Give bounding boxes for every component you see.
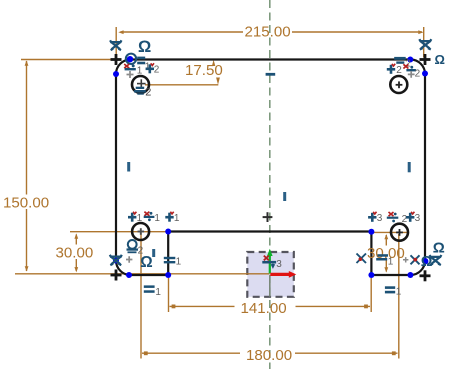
- svg-text:180.00: 180.00: [246, 347, 292, 364]
- svg-text:150.00: 150.00: [3, 194, 49, 211]
- svg-text:30.00: 30.00: [56, 245, 94, 262]
- svg-text:2: 2: [138, 246, 144, 257]
- svg-text:1: 1: [154, 213, 160, 224]
- svg-text:2: 2: [415, 68, 421, 79]
- svg-text:215.00: 215.00: [245, 24, 291, 41]
- svg-text:3: 3: [276, 259, 282, 270]
- svg-text:1: 1: [176, 257, 182, 268]
- svg-text:Ω: Ω: [421, 254, 433, 270]
- svg-text:141.00: 141.00: [241, 300, 287, 317]
- svg-text:2: 2: [145, 86, 151, 98]
- svg-text:1: 1: [137, 213, 143, 224]
- svg-text:Ω: Ω: [138, 38, 151, 56]
- svg-text:3: 3: [415, 213, 421, 224]
- svg-text:1: 1: [388, 257, 394, 268]
- svg-text:1: 1: [155, 287, 161, 298]
- svg-text:2: 2: [402, 214, 408, 225]
- svg-text:1: 1: [174, 213, 180, 224]
- svg-text:Ω: Ω: [433, 239, 445, 256]
- svg-text:1: 1: [137, 65, 143, 76]
- svg-text:17.50: 17.50: [185, 62, 223, 79]
- svg-text:2: 2: [154, 65, 160, 76]
- svg-text:1: 1: [396, 286, 402, 297]
- svg-text:3: 3: [377, 213, 383, 224]
- svg-text:2: 2: [396, 65, 402, 76]
- svg-text:Ω: Ω: [435, 52, 445, 67]
